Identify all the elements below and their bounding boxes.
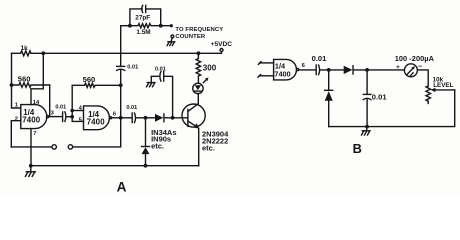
- wire cap to diode node: [136, 117, 146, 119]
- wire top +5V rail: [31, 52, 222, 54]
- svg-text:1k: 1k: [21, 45, 29, 52]
- svg-text:0.01: 0.01: [55, 104, 66, 110]
- diode D4 shunt: [325, 70, 333, 127]
- wire gate B input bottom: [258, 75, 274, 78]
- wire emitter to ground rail: [198, 129, 200, 166]
- pin 6 label B: [302, 63, 306, 69]
- wire pin 4: [72, 110, 83, 112]
- wire pin 7 to ground rail: [30, 129, 32, 166]
- node RC right: [159, 24, 163, 28]
- pin 5 label: [79, 117, 83, 123]
- resistor R5 300: [196, 53, 216, 83]
- wire feedback vertical lower: [73, 70, 121, 147]
- ground symbol A: [25, 166, 35, 177]
- resistor R4 1.5M: [130, 24, 161, 37]
- pin 4 label: [79, 105, 83, 111]
- wire left rail: [12, 53, 21, 108]
- svg-text:0.01: 0.01: [372, 92, 388, 101]
- wire LED to collector: [197, 94, 199, 104]
- node ground junction: [29, 164, 33, 168]
- capacitor C1 27pF: [130, 5, 161, 25]
- diode D2 shunt: [142, 118, 177, 166]
- svg-text:0.01: 0.01: [126, 105, 137, 111]
- capacitor C3 0.01 series: [117, 65, 138, 71]
- transistor Q1 2N3904: [182, 104, 229, 153]
- node ground B junction: [365, 125, 369, 129]
- potentiometer R6 10k level: [426, 76, 454, 103]
- svg-text:etc.: etc.: [202, 143, 215, 152]
- node 560 feedback junction: [119, 83, 123, 87]
- svg-text:100 -200µA: 100 -200µA: [395, 54, 435, 63]
- svg-text:560: 560: [83, 75, 96, 84]
- svg-text:7: 7: [33, 131, 36, 137]
- svg-text:0.01: 0.01: [155, 67, 166, 73]
- terminal to frequency counter: [161, 24, 224, 40]
- capacitor C5 0.01: [312, 54, 328, 75]
- wire feedback vertical upper: [120, 26, 122, 67]
- LED: [193, 78, 209, 94]
- wire cap to gate2 inputs: [66, 116, 72, 118]
- node pin4 junction: [70, 109, 74, 113]
- svg-text:2: 2: [15, 117, 18, 123]
- resistor R2 560: [12, 75, 50, 88]
- resistor R1 1k: [12, 45, 32, 56]
- wire pin 2 to key: [11, 121, 20, 147]
- capacitor C6 0.01 shunt: [363, 70, 387, 127]
- pot wiper arrow: [431, 88, 455, 92]
- diode D3 series: [344, 66, 405, 74]
- svg-text:7400: 7400: [22, 116, 41, 125]
- wire key to pin2: [11, 146, 52, 148]
- capacitor C4 0.01 output: [121, 105, 138, 123]
- svg-text:+5VDC: +5VDC: [211, 41, 233, 48]
- svg-text:27pF: 27pF: [135, 15, 150, 22]
- key jack right circle: [68, 145, 72, 149]
- pin 6 label: [113, 111, 117, 117]
- diode D1 series: [146, 114, 188, 122]
- svg-text:7400: 7400: [87, 117, 106, 126]
- node D4 junction: [327, 68, 331, 72]
- wire gate B output: [299, 69, 316, 71]
- ground symbol B: [362, 127, 370, 135]
- pin 3 label: [51, 110, 55, 116]
- svg-text:0.01: 0.01: [312, 54, 328, 63]
- meter M1 100-200uA: [395, 54, 435, 77]
- op-amp U2 NAND 1/4 7400: [274, 59, 299, 80]
- ground symbol base bypass: [147, 83, 155, 87]
- wire gate1 output: [49, 116, 62, 118]
- pin 7 label: [33, 131, 36, 137]
- wire bottom ground rail A: [31, 165, 199, 167]
- svg-text:14: 14: [33, 100, 40, 106]
- node D2 ground junction: [144, 164, 148, 168]
- wire gate2 input tie: [72, 85, 83, 121]
- node top-rail junction right: [197, 51, 201, 55]
- wire RC left to feedback vertical: [121, 25, 130, 27]
- svg-text:COUNTER: COUNTER: [175, 34, 205, 40]
- wire gate B input top: [258, 62, 273, 65]
- terminal counter ground: [167, 35, 175, 46]
- svg-text:7400: 7400: [274, 69, 290, 78]
- pin 1 label: [15, 103, 19, 109]
- node RC left: [128, 24, 132, 28]
- op-amp U1a NAND 1/4 7400: [21, 105, 49, 129]
- node base bypass junction: [171, 116, 175, 120]
- wire cap to D3: [320, 69, 344, 71]
- svg-text:560: 560: [18, 75, 31, 84]
- svg-text:300: 300: [203, 64, 217, 73]
- svg-text:etc.: etc.: [151, 142, 164, 151]
- wire wiper return: [329, 90, 455, 127]
- svg-text:TO FREQUENCY: TO FREQUENCY: [175, 27, 223, 33]
- terminal +5VDC: [211, 41, 233, 52]
- wire feedback drop to gate1 output: [49, 85, 51, 117]
- svg-text:LEVEL: LEVEL: [433, 82, 453, 89]
- wire Vcc jog to pin 14: [31, 53, 43, 104]
- node gate2 output: [119, 116, 123, 120]
- pin 2 label: [15, 117, 18, 123]
- svg-text:1.5M: 1.5M: [136, 29, 150, 36]
- svg-text:A: A: [117, 180, 127, 195]
- capacitor C7 0.01 base bypass: [151, 67, 172, 118]
- resistor R3 560 feedback: [72, 75, 121, 88]
- key jack left circle: [52, 145, 56, 149]
- node C6 top junction: [365, 68, 369, 72]
- node left-rail junction: [10, 83, 14, 87]
- capacitor C2 0.01 between gates: [55, 104, 66, 121]
- wire gate2 output to node: [112, 117, 121, 119]
- label A: [117, 180, 127, 195]
- node diode junction: [144, 116, 148, 120]
- pin 14 label: [33, 100, 40, 106]
- svg-text:+: +: [396, 64, 400, 71]
- svg-text:B: B: [353, 141, 362, 156]
- label B: [353, 141, 362, 156]
- node cap junction: [70, 115, 74, 119]
- op-amp U1b NAND 1/4 7400: [84, 106, 112, 130]
- node top-rail junction left: [41, 51, 45, 55]
- wire meter to pot: [417, 70, 428, 86]
- svg-text:0.01: 0.01: [127, 65, 138, 71]
